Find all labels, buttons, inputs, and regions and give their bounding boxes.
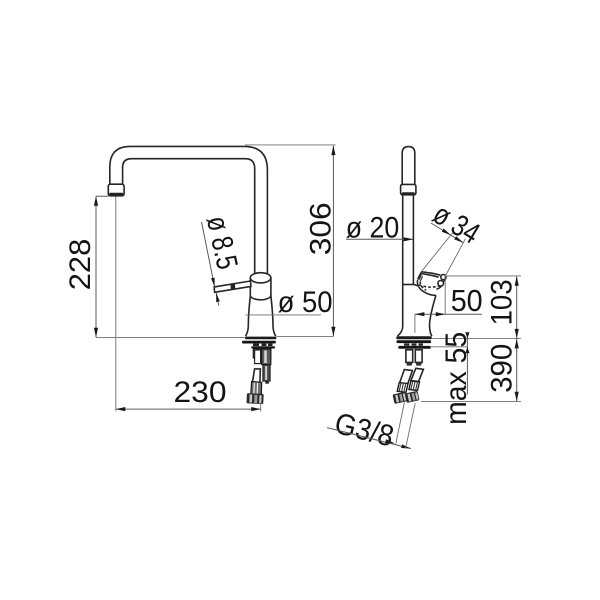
node: left hose nut side bbox=[393, 392, 408, 404]
node: mounting washer bar 1 bbox=[242, 341, 276, 344]
node: left hose braid side bbox=[397, 383, 408, 393]
wire: counter line left bbox=[96, 337, 245, 339]
svg-text:50: 50 bbox=[451, 283, 483, 318]
dimension 50 (side) bbox=[414, 314, 416, 333]
dimension 230 bbox=[115, 197, 117, 412]
wire: body taper right bbox=[271, 296, 276, 336]
node: threaded shank bbox=[253, 349, 271, 359]
node: rear supply tube bbox=[263, 365, 270, 381]
node: base plate side bbox=[396, 336, 432, 339]
wire: joint line bbox=[403, 284, 414, 286]
node: nozzle collar side bbox=[401, 184, 416, 194]
wire: counter line mid bbox=[277, 336, 334, 338]
dimension max 55 bbox=[430, 346, 468, 348]
node: lever handle bbox=[214, 281, 251, 292]
svg-text:228: 228 bbox=[64, 239, 97, 291]
node: front hose sleeve bbox=[252, 369, 260, 387]
dimension 103 bbox=[445, 275, 521, 277]
node: right hose sleeve side bbox=[411, 368, 424, 381]
dimension 228 bbox=[95, 196, 97, 337]
svg-text:ø 50: ø 50 bbox=[278, 286, 333, 319]
wire: spout inner contour bbox=[123, 159, 255, 274]
dimension 306 bbox=[245, 144, 336, 146]
svg-text:230: 230 bbox=[174, 376, 227, 409]
node: mounting teeth side bbox=[404, 343, 410, 345]
wire: tube below collar bbox=[402, 194, 404, 284]
dimension 390 bbox=[421, 400, 521, 402]
node: washer bar 1 side bbox=[397, 340, 432, 343]
node: spout nozzle aerator bbox=[108, 184, 124, 196]
svg-text:390: 390 bbox=[485, 344, 518, 393]
svg-text:max 55: max 55 bbox=[440, 332, 473, 425]
node: mounting washer bar 2 bbox=[251, 346, 275, 348]
node: left hose sleeve side bbox=[400, 370, 413, 385]
svg-text:306: 306 bbox=[305, 202, 338, 255]
wire: body left edge bbox=[397, 285, 402, 337]
node: cartridge handle tilted bbox=[413, 272, 446, 296]
node: washer bar 2 side bbox=[398, 346, 431, 349]
node: mounting teeth bbox=[253, 344, 259, 346]
svg-text:103: 103 bbox=[485, 279, 518, 325]
node: base plate bbox=[245, 337, 276, 340]
wire: body taper left bbox=[246, 296, 251, 336]
node: front hose braid bbox=[251, 382, 262, 395]
wire: body right edge bbox=[430, 295, 436, 336]
node: mixer head cylinder bbox=[249, 278, 251, 296]
node: right hose nut side bbox=[405, 391, 420, 403]
node: shank nipples side bbox=[406, 350, 413, 363]
wire: spout outer contour bbox=[110, 146, 268, 273]
wire: spout tube seen from side, rounded cap bbox=[402, 147, 415, 185]
node: right hose braid side bbox=[409, 381, 420, 391]
node: hose nut bbox=[246, 393, 263, 404]
